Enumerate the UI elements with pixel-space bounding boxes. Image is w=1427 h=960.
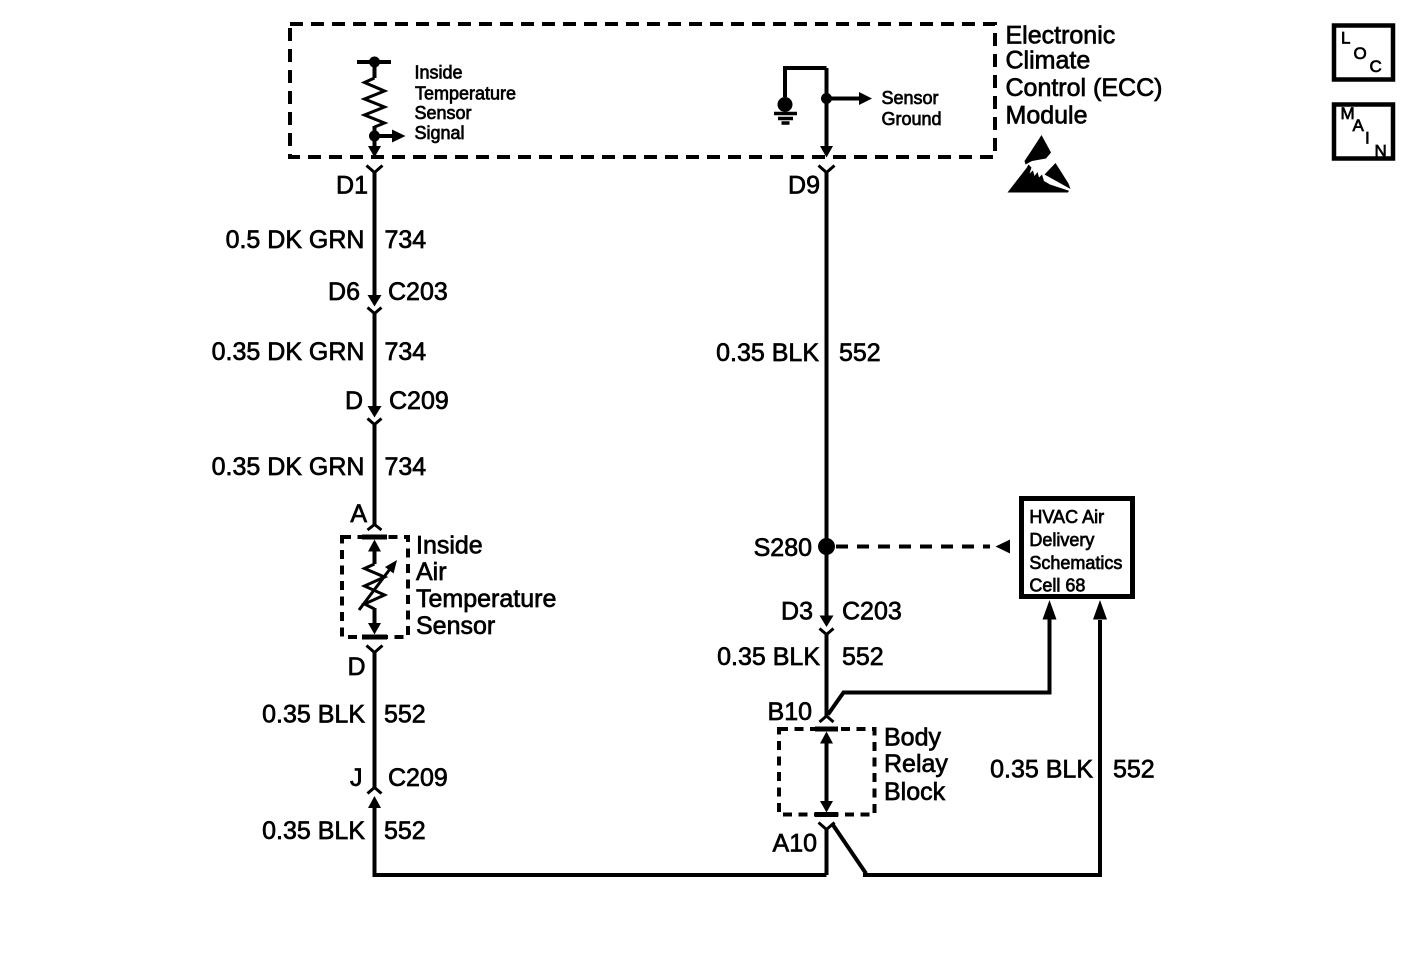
svg-text:552: 552 [1113,756,1155,784]
svg-text:D1: D1 [336,172,368,200]
svg-text:Relay: Relay [884,750,948,778]
svg-text:A: A [1353,116,1365,135]
svg-text:Temperature: Temperature [416,585,556,613]
svg-text:734: 734 [385,226,427,254]
svg-text:Climate: Climate [1006,47,1091,75]
svg-text:Cell 68: Cell 68 [1029,576,1085,596]
svg-text:Ground: Ground [882,109,942,129]
svg-text:C209: C209 [389,387,449,415]
svg-text:D3: D3 [781,598,813,626]
svg-text:734: 734 [385,453,427,481]
svg-text:A: A [350,500,367,528]
svg-text:734: 734 [385,338,427,366]
svg-text:A10: A10 [773,830,817,858]
svg-text:0.35 BLK: 0.35 BLK [990,756,1093,784]
svg-text:D: D [345,387,363,415]
svg-text:L: L [1341,29,1350,48]
svg-text:Sensor: Sensor [416,612,495,640]
svg-text:Air: Air [416,558,447,586]
svg-text:Temperature: Temperature [415,83,516,103]
svg-text:Inside: Inside [416,532,483,560]
svg-text:D9: D9 [788,172,820,200]
svg-text:Control (ECC): Control (ECC) [1006,74,1163,102]
svg-text:Electronic: Electronic [1006,22,1116,50]
svg-text:HVAC Air: HVAC Air [1029,507,1104,527]
svg-text:N: N [1375,142,1387,161]
svg-text:O: O [1354,44,1367,63]
svg-text:S280: S280 [754,534,812,562]
svg-text:0.35 BLK: 0.35 BLK [717,643,820,671]
svg-text:0.5 DK GRN: 0.5 DK GRN [226,226,365,254]
svg-text:C203: C203 [388,278,448,306]
svg-text:J: J [350,764,363,792]
svg-text:Delivery: Delivery [1029,530,1094,550]
svg-text:D: D [347,653,365,681]
svg-text:552: 552 [384,701,426,729]
svg-text:0.35 BLK: 0.35 BLK [716,339,819,367]
svg-text:0.35 DK GRN: 0.35 DK GRN [212,453,365,481]
svg-text:0.35 BLK: 0.35 BLK [262,701,365,729]
svg-text:552: 552 [384,817,426,845]
svg-text:B10: B10 [768,698,812,726]
svg-text:Signal: Signal [415,123,465,143]
svg-text:I: I [1365,129,1370,148]
svg-text:Sensor: Sensor [415,103,472,123]
svg-text:C209: C209 [388,764,448,792]
svg-text:Schematics: Schematics [1029,553,1122,573]
svg-text:Module: Module [1006,102,1088,130]
svg-text:D6: D6 [328,278,360,306]
svg-text:Inside: Inside [415,62,463,82]
svg-text:Body: Body [884,724,941,752]
svg-text:552: 552 [839,339,881,367]
svg-text:0.35 BLK: 0.35 BLK [262,817,365,845]
svg-text:C: C [1370,57,1382,76]
svg-text:0.35 DK GRN: 0.35 DK GRN [212,338,365,366]
svg-text:552: 552 [842,643,884,671]
svg-text:Block: Block [884,778,946,806]
svg-text:Sensor: Sensor [882,88,939,108]
svg-text:C203: C203 [842,598,902,626]
